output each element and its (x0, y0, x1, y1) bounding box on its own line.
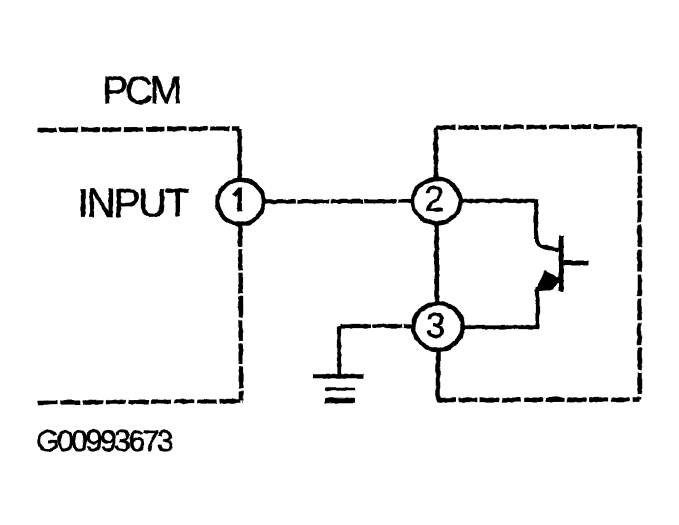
wire top edge of PCM box (37, 128, 239, 130)
svg-text:2: 2 (424, 180, 443, 219)
transistor Q1 (PNP, inside right box) (459, 199, 588, 328)
svg-text:3: 3 (425, 306, 444, 345)
PCM module box (left, open on left side) (37, 128, 243, 402)
wire right edge of right box (637, 126, 642, 399)
collector lead curve into base bar (536, 234, 559, 250)
wire pin1 to pin2 (263, 198, 413, 203)
base bar (558, 235, 563, 291)
wire emitter lead vertical (535, 286, 539, 327)
pin 3 (connector terminal circle) (413, 303, 462, 349)
svg-text:G00993673: G00993673 (36, 425, 173, 458)
wire left edge segment above pin 2 (433, 127, 438, 178)
wire collector lead vertical (533, 199, 537, 239)
wire right edge of PCM box below pin 1 (240, 225, 241, 400)
wire pin3 to ground (339, 326, 415, 376)
module box (right) (436, 126, 640, 400)
pin 2 (connector terminal circle) (412, 179, 460, 223)
svg-text:PCM: PCM (102, 69, 180, 112)
emitter lead diagonal (537, 276, 560, 289)
wire left edge segment below pin 3 (435, 351, 440, 400)
emitter arrow (points toward base bar) (534, 270, 561, 292)
wire emitter to pin 3 (461, 324, 539, 328)
wire pin2 to transistor collector (459, 198, 537, 202)
ground symbol (312, 376, 363, 401)
svg-text:INPUT: INPUT (77, 181, 189, 225)
wire top edge of right box (436, 126, 640, 127)
pin 1 (connector terminal circle) (217, 179, 263, 223)
wire bottom edge of right box (436, 397, 639, 402)
wire left edge segment between pin 2 and pin 3 (434, 225, 439, 303)
base lead (561, 260, 588, 265)
wire right edge of PCM box above pin 1 (237, 128, 242, 178)
wire bottom edge of PCM box (37, 401, 243, 403)
